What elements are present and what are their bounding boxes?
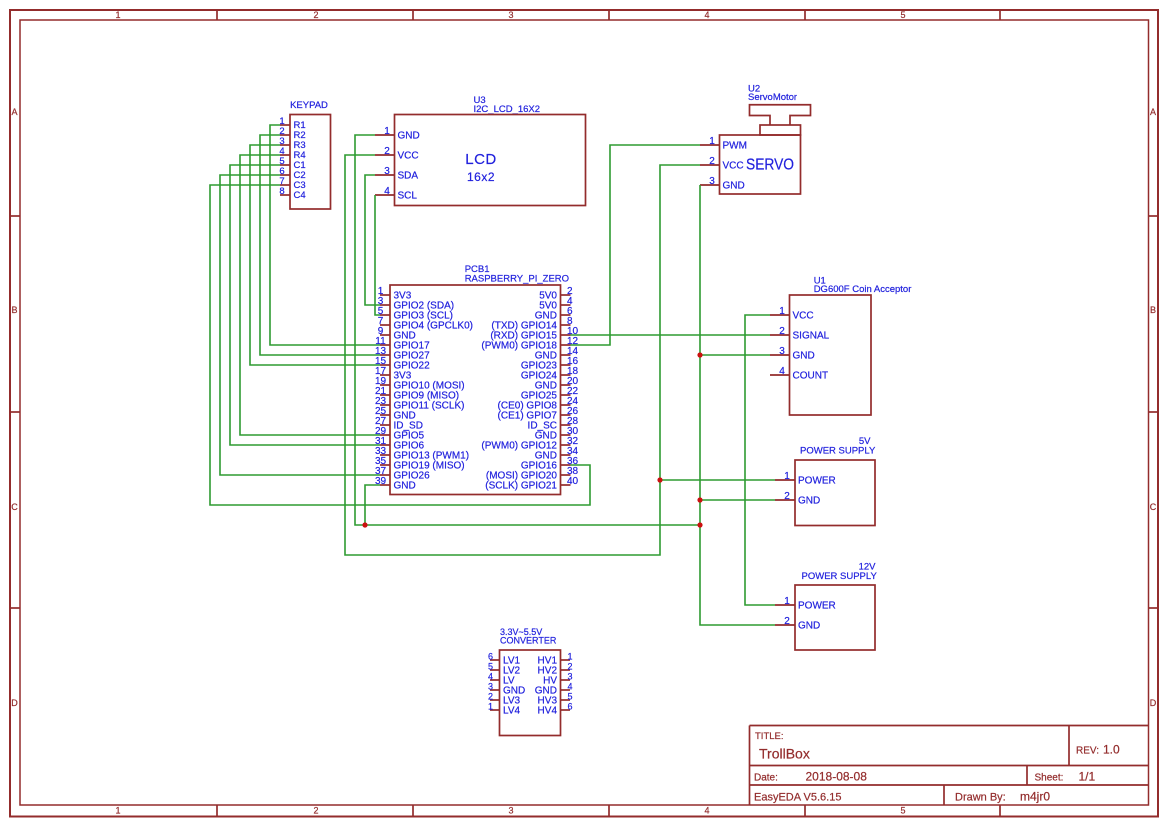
svg-text:C4: C4 <box>294 190 306 201</box>
12V POWER SUPPLY pin 2 GND <box>775 616 820 632</box>
U3 pin 2 VCC <box>375 146 419 162</box>
U2 pin 3 GND <box>700 176 745 192</box>
svg-text:2: 2 <box>784 491 790 502</box>
PCB1 pin 9 GND <box>378 326 416 342</box>
component PCB1 body <box>390 285 561 495</box>
svg-text:KEYPAD: KEYPAD <box>290 100 328 111</box>
PCB1 pin 3 GPIO2 (SDA) <box>378 296 454 312</box>
PCB1 pin 39 GND <box>375 476 416 492</box>
wire U3 VCC to U2 VCC net <box>345 155 700 555</box>
PCB1 pin 16 GPIO23 <box>521 356 579 372</box>
svg-text:4: 4 <box>488 672 493 682</box>
svg-text:GND: GND <box>398 131 420 142</box>
svg-text:4: 4 <box>384 186 390 197</box>
junction 5V GND <box>697 497 702 502</box>
wire U1 SIGNAL to PCB1 GPIO15 <box>571 334 771 336</box>
KEYPAD pin 3 R3 <box>279 136 305 151</box>
PCB1 pin 40 (SCLK) GPIO21 <box>485 476 578 492</box>
PCB1 pin 10 (RXD) GPIO15 <box>490 326 578 342</box>
svg-text:B: B <box>11 305 17 315</box>
svg-text:6: 6 <box>488 652 493 662</box>
svg-text:40: 40 <box>567 476 579 487</box>
U1 pin 2 SIGNAL <box>770 326 830 342</box>
U3 pin 4 SCL <box>375 186 417 202</box>
component converter body <box>500 650 561 736</box>
wire KEYPAD C1 to PCB1 GPIO6 <box>230 165 380 445</box>
svg-text:LCD: LCD <box>465 151 497 168</box>
U1 pin 3 GND <box>770 346 815 362</box>
svg-text:GND: GND <box>798 496 820 507</box>
KEYPAD pin 6 C2 <box>279 166 305 181</box>
converter pin 4 LV <box>488 672 515 687</box>
U2 pin 2 VCC <box>700 156 744 172</box>
svg-text:LV4: LV4 <box>503 706 520 717</box>
wire U1 VCC to 12V POWER <box>745 315 775 605</box>
PCB1 pin 4 5V0 <box>539 296 573 312</box>
PCB1 pin 28 ID_SC <box>528 416 579 432</box>
svg-text:2: 2 <box>709 156 715 167</box>
svg-text:D: D <box>1150 698 1157 708</box>
wire PCB1 pin39 GND to GND bus <box>365 485 380 525</box>
svg-text:4: 4 <box>567 682 572 692</box>
svg-text:m4jr0: m4jr0 <box>1020 790 1050 804</box>
PCB1 pin 12 (PWM0) GPIO18 <box>481 336 578 352</box>
converter pin 6 HV4 <box>538 702 573 717</box>
svg-text:SERVO: SERVO <box>746 157 794 174</box>
wire U2 PWM to PCB1 GPIO18 <box>571 145 701 345</box>
KEYPAD pin 5 C1 <box>279 156 305 171</box>
svg-text:1: 1 <box>784 471 790 482</box>
PCB1 pin 32 (PWM0) GPIO12 <box>481 436 578 452</box>
svg-text:B: B <box>1150 305 1156 315</box>
KEYPAD pin 7 C3 <box>279 176 305 191</box>
svg-text:CONVERTER: CONVERTER <box>500 636 557 646</box>
svg-text:1: 1 <box>384 126 390 137</box>
wire U3 SDA to PCB1 GPIO2 <box>365 175 380 305</box>
PCB1 pin 8 (TXD) GPIO14 <box>491 316 573 332</box>
svg-text:1: 1 <box>115 806 120 816</box>
svg-text:Date:: Date: <box>754 773 778 784</box>
PCB1 pin 20 GND <box>535 376 579 392</box>
svg-text:6: 6 <box>567 702 572 712</box>
svg-text:5: 5 <box>900 806 905 816</box>
PCB1 pin 26 (CE1) GPIO7 <box>498 406 579 422</box>
converter pin 1 HV1 <box>538 652 573 667</box>
PCB1 pin 18 GPIO24 <box>521 366 579 382</box>
svg-text:PWM: PWM <box>723 141 747 152</box>
PCB1 pin 19 GPIO10 (MOSI) <box>375 376 465 392</box>
PCB1 pin 36 GPIO16 <box>521 456 579 472</box>
svg-text:POWER: POWER <box>798 476 836 487</box>
svg-text:2: 2 <box>488 692 493 702</box>
5V POWER SUPPLY pin 2 GND <box>775 491 820 507</box>
frame column ticks bottom <box>216 805 218 817</box>
component 5V POWER SUPPLY body <box>795 460 875 526</box>
PCB1 pin 17 3V3 <box>375 366 412 382</box>
wire KEYPAD R3 to PCB1 GPIO22 <box>250 145 380 365</box>
svg-text:2: 2 <box>313 806 318 816</box>
PCB1 pin 11 GPIO17 <box>375 336 430 352</box>
svg-text:VCC: VCC <box>793 311 814 322</box>
KEYPAD pin 8 C4 <box>279 186 305 201</box>
PCB1 pin 5 GPIO3 (SCL) <box>378 306 453 322</box>
svg-text:TITLE:: TITLE: <box>755 731 784 742</box>
svg-text:GND: GND <box>798 621 820 632</box>
junction GND bus / pin39 <box>362 522 367 527</box>
PCB1 pin 13 GPIO27 <box>375 346 430 362</box>
wire KEYPAD C3 to PCB1 GPIO16 <box>210 185 590 505</box>
svg-text:1.0: 1.0 <box>1103 743 1120 757</box>
wire U2 GND down to 12V GND <box>700 185 775 625</box>
converter pin 5 HV3 <box>538 692 573 707</box>
svg-text:3: 3 <box>488 682 493 692</box>
wire 5V GND to GND net <box>700 499 775 501</box>
converter pin 2 HV2 <box>538 662 573 677</box>
svg-text:GND: GND <box>394 481 416 492</box>
PCB1 pin 21 GPIO9 (MISO) <box>375 386 459 402</box>
svg-text:5: 5 <box>488 662 493 672</box>
svg-text:2: 2 <box>784 616 790 627</box>
wire U3 SCL to PCB1 GPIO3 <box>375 195 380 315</box>
PCB1 pin 23 GPIO11 (SCLK) <box>375 396 465 412</box>
PCB1 pin 25 GND <box>375 406 416 422</box>
svg-text:A: A <box>11 107 17 117</box>
svg-text:8: 8 <box>279 186 284 197</box>
svg-text:2: 2 <box>779 326 785 337</box>
svg-text:1: 1 <box>709 136 715 147</box>
PCB1 pin 2 5V0 <box>539 286 573 302</box>
svg-text:5: 5 <box>900 10 905 20</box>
svg-text:VCC: VCC <box>723 161 744 172</box>
PCB1 pin 14 GND <box>535 346 579 362</box>
svg-text:ServoMotor: ServoMotor <box>748 92 797 103</box>
PCB1 pin 1 3V3 <box>378 286 412 302</box>
wire KEYPAD R1 to PCB1 GPIO17 <box>270 125 380 345</box>
svg-text:3: 3 <box>508 806 513 816</box>
converter pin 3 GND <box>488 682 525 697</box>
svg-text:POWER SUPPLY: POWER SUPPLY <box>800 446 876 457</box>
svg-text:5: 5 <box>567 692 572 702</box>
svg-text:2: 2 <box>567 662 572 672</box>
PCB1 pin 33 GPIO13 (PWM1) <box>375 446 469 462</box>
PCB1 pin 30 GND <box>535 426 579 442</box>
svg-text:GND: GND <box>793 351 815 362</box>
svg-text:3: 3 <box>567 672 572 682</box>
wire U1 GND to GND net <box>700 354 770 356</box>
svg-text:COUNT: COUNT <box>793 371 829 382</box>
svg-text:Sheet:: Sheet: <box>1035 773 1064 784</box>
PCB1 pin 15 GPIO22 <box>375 356 430 372</box>
component KEYPAD body <box>290 115 331 210</box>
component 12V POWER SUPPLY body <box>795 585 875 650</box>
svg-text:4: 4 <box>704 806 709 816</box>
svg-text:2: 2 <box>384 146 390 157</box>
U1 pin 4 COUNT <box>770 366 828 382</box>
svg-text:C: C <box>1150 502 1157 512</box>
PCB1 pin 37 GPIO26 <box>375 466 430 482</box>
svg-text:A: A <box>1150 107 1156 117</box>
svg-text:3: 3 <box>384 166 390 177</box>
svg-text:(SCLK) GPIO21: (SCLK) GPIO21 <box>485 481 557 492</box>
svg-text:REV:: REV: <box>1076 746 1099 757</box>
U1 pin 1 VCC <box>770 306 814 322</box>
5V POWER SUPPLY pin 1 POWER <box>775 471 836 487</box>
svg-text:3: 3 <box>508 10 513 20</box>
wire U3 GND to GND bus <box>355 135 700 525</box>
svg-text:1: 1 <box>567 652 572 662</box>
svg-text:EasyEDA V5.6.15: EasyEDA V5.6.15 <box>754 792 841 804</box>
svg-text:3: 3 <box>709 176 715 187</box>
svg-text:POWER SUPPLY: POWER SUPPLY <box>802 571 878 582</box>
junction 5V POWER / VCC net <box>657 477 662 482</box>
svg-text:16x2: 16x2 <box>467 170 495 184</box>
svg-text:1/1: 1/1 <box>1079 770 1096 784</box>
U3 pin 3 SDA <box>375 166 418 182</box>
svg-text:SDA: SDA <box>398 171 419 182</box>
12V POWER SUPPLY pin 1 POWER <box>775 596 836 612</box>
wire KEYPAD C2 to PCB1 GPIO26 <box>220 175 380 475</box>
converter pin 6 LV1 <box>488 652 520 667</box>
converter pin 4 GND <box>535 682 573 697</box>
PCB1 pin 24 (CE0) GPIO8 <box>498 396 579 412</box>
svg-text:SIGNAL: SIGNAL <box>793 331 830 342</box>
component U2 motor icon horn outline <box>750 105 811 125</box>
PCB1 pin 31 GPIO6 <box>375 436 425 452</box>
PCB1 pin 34 GND <box>535 446 579 462</box>
PCB1 pin 38 (MOSI) GPIO20 <box>486 466 579 482</box>
svg-text:1: 1 <box>779 306 785 317</box>
junction U1 GND <box>697 352 702 357</box>
component U2 body <box>720 135 801 194</box>
frame row ticks left <box>10 215 20 217</box>
svg-text:3: 3 <box>779 346 785 357</box>
svg-text:POWER: POWER <box>798 601 836 612</box>
KEYPAD pin 4 R4 <box>279 146 305 161</box>
svg-text:1: 1 <box>115 10 120 20</box>
svg-text:2: 2 <box>313 10 318 20</box>
component U3 body <box>395 115 586 206</box>
svg-text:1: 1 <box>784 596 790 607</box>
KEYPAD pin 1 R1 <box>279 116 305 131</box>
converter pin 5 LV2 <box>488 662 520 677</box>
title block outline <box>750 726 1149 806</box>
component U1 body <box>790 295 872 415</box>
svg-text:4: 4 <box>779 366 785 377</box>
wire KEYPAD R4 to PCB1 GPIO5 <box>240 155 380 435</box>
svg-text:SCL: SCL <box>398 191 418 202</box>
wire 5V POWER to VCC net <box>660 479 775 481</box>
component U2 motor icon body <box>760 125 801 135</box>
frame column ticks top <box>216 10 218 20</box>
converter pin 2 LV3 <box>488 692 520 707</box>
KEYPAD pin 2 R2 <box>279 126 305 141</box>
U2 pin 1 PWM <box>700 136 747 152</box>
svg-text:I2C_LCD_16X2: I2C_LCD_16X2 <box>474 104 541 115</box>
svg-text:D: D <box>11 698 18 708</box>
PCB1 pin 29 GPIO5 <box>375 426 425 442</box>
junction GND bus / servo GND <box>697 522 702 527</box>
U3 pin 1 GND <box>375 126 420 142</box>
PCB1 pin 35 GPIO19 (MISO) <box>375 456 465 472</box>
PCB1 pin 22 GPIO25 <box>521 386 579 402</box>
wire KEYPAD R2 to PCB1 GPIO27 <box>260 135 380 355</box>
svg-text:RASPBERRY_PI_ZERO: RASPBERRY_PI_ZERO <box>465 274 569 285</box>
svg-text:GND: GND <box>723 181 745 192</box>
converter pin 3 HV <box>543 672 572 687</box>
PCB1 pin 7 GPIO4 (GPCLK0) <box>378 316 473 332</box>
svg-text:VCC: VCC <box>398 151 419 162</box>
svg-text:HV4: HV4 <box>538 706 558 717</box>
converter pin 1 LV4 <box>488 702 520 717</box>
svg-text:C: C <box>11 502 18 512</box>
svg-text:DG600F Coin Acceptor: DG600F Coin Acceptor <box>814 284 912 295</box>
svg-text:2018-08-08: 2018-08-08 <box>806 770 868 784</box>
svg-text:Drawn By:: Drawn By: <box>955 792 1006 804</box>
svg-text:4: 4 <box>704 10 709 20</box>
svg-text:TrollBox: TrollBox <box>759 746 810 762</box>
PCB1 pin 27 ID_SD <box>375 416 423 432</box>
svg-text:1: 1 <box>488 702 493 712</box>
PCB1 pin 6 GND <box>535 306 573 322</box>
frame row ticks right <box>1149 215 1159 217</box>
